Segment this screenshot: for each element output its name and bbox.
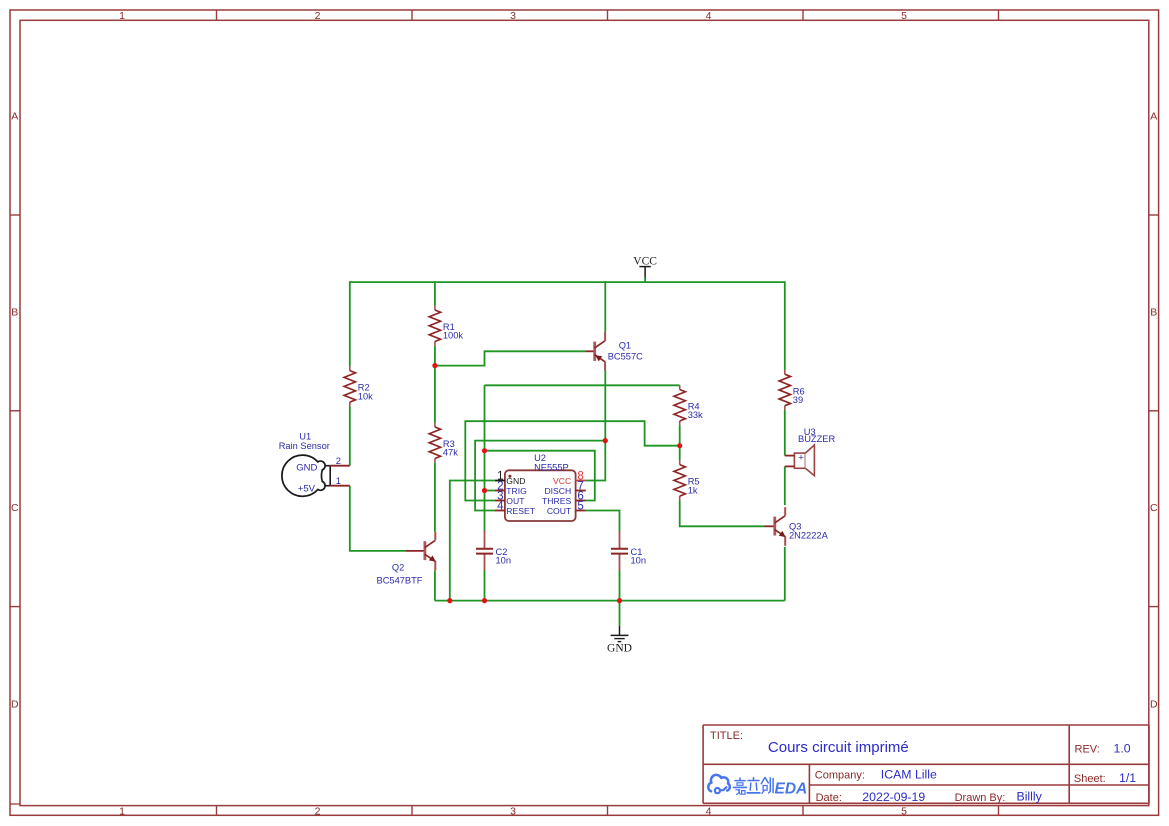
svg-text:ICAM Lille: ICAM Lille — [881, 768, 937, 782]
svg-text:B: B — [11, 306, 18, 318]
svg-text:4: 4 — [706, 805, 712, 817]
svg-text:BUZZER: BUZZER — [798, 434, 835, 444]
svg-text:5: 5 — [577, 501, 583, 513]
svg-text:10k: 10k — [358, 391, 373, 401]
svg-text:B: B — [1150, 306, 1157, 318]
svg-text:U1: U1 — [299, 431, 311, 441]
svg-text:1: 1 — [336, 476, 341, 486]
svg-text:DISCH: DISCH — [544, 486, 571, 496]
svg-text:GND: GND — [296, 462, 317, 473]
svg-text:GND: GND — [506, 476, 525, 486]
svg-text:THRES: THRES — [542, 496, 571, 506]
svg-text:2: 2 — [315, 805, 321, 817]
svg-text:2N2222A: 2N2222A — [789, 530, 829, 540]
svg-text:Cours circuit imprimé: Cours circuit imprimé — [768, 739, 909, 756]
svg-text:2022-09-19: 2022-09-19 — [862, 790, 925, 804]
svg-text:Drawn By:: Drawn By: — [955, 792, 1006, 804]
svg-text:2: 2 — [315, 10, 321, 22]
svg-text:Company:: Company: — [815, 770, 865, 782]
svg-text:100k: 100k — [443, 331, 464, 341]
svg-text:D: D — [1150, 698, 1158, 710]
svg-text:10n: 10n — [496, 555, 512, 565]
svg-text:1/1: 1/1 — [1119, 771, 1136, 785]
svg-text:+5V: +5V — [298, 484, 316, 495]
svg-text:4: 4 — [497, 501, 504, 513]
svg-text:C: C — [11, 502, 19, 514]
svg-text:COUT: COUT — [547, 506, 572, 516]
svg-text:VCC: VCC — [553, 476, 571, 486]
svg-text:NE555P: NE555P — [534, 463, 569, 473]
svg-text:GND: GND — [607, 642, 632, 654]
svg-text:Date:: Date: — [816, 792, 842, 804]
svg-text:33k: 33k — [688, 410, 703, 420]
svg-text:+: + — [798, 453, 804, 464]
svg-text:1.0: 1.0 — [1114, 741, 1131, 755]
svg-text:A: A — [1150, 110, 1157, 122]
svg-text:D: D — [11, 698, 19, 710]
svg-text:Q2: Q2 — [392, 563, 404, 573]
svg-text:BC557C: BC557C — [608, 351, 643, 361]
svg-text:TITLE:: TITLE: — [710, 730, 743, 742]
svg-text:C: C — [1150, 502, 1158, 514]
svg-text:BC547BTF: BC547BTF — [377, 575, 423, 585]
svg-text:Q1: Q1 — [619, 341, 631, 351]
svg-text:Rain Sensor: Rain Sensor — [279, 441, 330, 451]
svg-text:2: 2 — [336, 456, 341, 466]
svg-text:Billly: Billly — [1017, 790, 1043, 804]
svg-text:47k: 47k — [443, 448, 458, 458]
svg-text:1k: 1k — [688, 485, 698, 495]
svg-text:REV:: REV: — [1075, 743, 1100, 755]
svg-text:1: 1 — [119, 805, 125, 817]
svg-text:VCC: VCC — [633, 255, 657, 267]
svg-text:Sheet:: Sheet: — [1074, 773, 1106, 785]
svg-text:5: 5 — [901, 805, 907, 817]
svg-text:TRIG: TRIG — [506, 486, 527, 496]
svg-text:3: 3 — [510, 10, 516, 22]
svg-text:1: 1 — [119, 10, 125, 22]
svg-text:39: 39 — [793, 395, 803, 405]
svg-text:3: 3 — [510, 805, 516, 817]
svg-text:A: A — [11, 110, 18, 122]
svg-text:4: 4 — [706, 10, 712, 22]
svg-text:RESET: RESET — [506, 506, 535, 516]
svg-text:OUT: OUT — [506, 496, 525, 506]
svg-text:10n: 10n — [631, 555, 647, 565]
svg-text:5: 5 — [901, 10, 907, 22]
svg-text:EDA: EDA — [775, 781, 808, 798]
